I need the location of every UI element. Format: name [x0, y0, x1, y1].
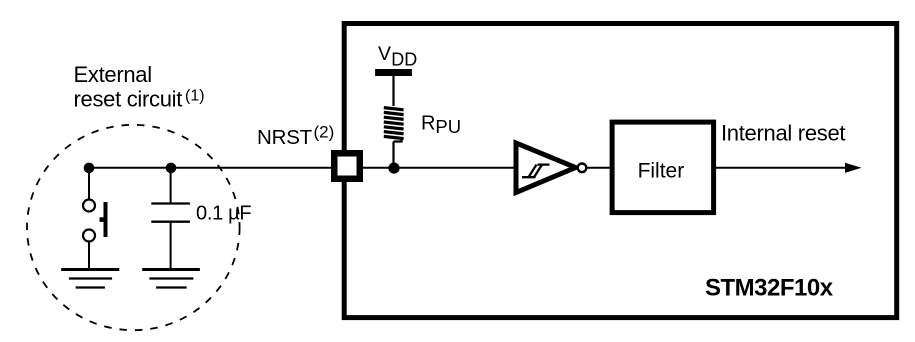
- wire NRST pad to schmitt input: [358, 167, 516, 169]
- wire capacitor to ground: [170, 222, 172, 268]
- op-amp U2 schmitt trigger inverter: [516, 143, 576, 193]
- junction node at NRST line: [388, 163, 399, 174]
- wire switch to ground: [88, 242, 90, 269]
- svg-text:NRST: NRST: [257, 126, 313, 149]
- VDD supply symbol: [375, 69, 412, 76]
- capacitor C1 plate bottom: [151, 221, 190, 223]
- inverter output bubble: [578, 164, 587, 173]
- switch SW1 contact top: [83, 200, 95, 212]
- svg-text:V: V: [378, 43, 391, 65]
- svg-text:DD: DD: [391, 50, 417, 70]
- hysteresis symbol: [522, 165, 550, 178]
- filter box: [612, 122, 714, 213]
- wire bubble to filter: [585, 167, 612, 169]
- wire node A to switch: [88, 168, 90, 200]
- node B capacitor branch: [166, 163, 177, 174]
- wire VDD bar to resistor: [392, 76, 394, 106]
- switch SW1 actuator tick: [100, 217, 105, 222]
- svg-text:(1): (1): [185, 88, 205, 105]
- svg-text:0.1 µF: 0.1 µF: [196, 203, 251, 225]
- STM32F10x box U1: [344, 24, 897, 318]
- arrowhead internal reset: [845, 163, 862, 173]
- NRST pad square: [334, 153, 360, 179]
- wire resistor to node: [392, 142, 394, 169]
- svg-text:Internal reset: Internal reset: [721, 121, 845, 146]
- svg-text:R: R: [421, 113, 435, 135]
- ground G2: [142, 270, 200, 288]
- external reset circuit dashed boundary: [27, 125, 240, 330]
- resistor RPU coil: [384, 108, 404, 139]
- svg-text:reset circuit: reset circuit: [74, 87, 183, 112]
- node A button branch: [84, 163, 95, 174]
- switch SW1 contact bottom: [83, 230, 95, 242]
- wire external to NRST pad: [89, 167, 333, 169]
- svg-text:(2): (2): [314, 123, 335, 142]
- ground G1: [61, 270, 119, 288]
- wire filter to arrow: [716, 167, 847, 169]
- switch SW1 actuator bar: [104, 202, 108, 237]
- svg-text:Filter: Filter: [638, 160, 685, 183]
- svg-text:PU: PU: [435, 116, 461, 137]
- svg-text:STM32F10x: STM32F10x: [705, 275, 834, 302]
- wire node B to capacitor: [170, 168, 172, 204]
- capacitor C1 plate top: [151, 202, 190, 204]
- svg-text:External: External: [74, 62, 152, 87]
